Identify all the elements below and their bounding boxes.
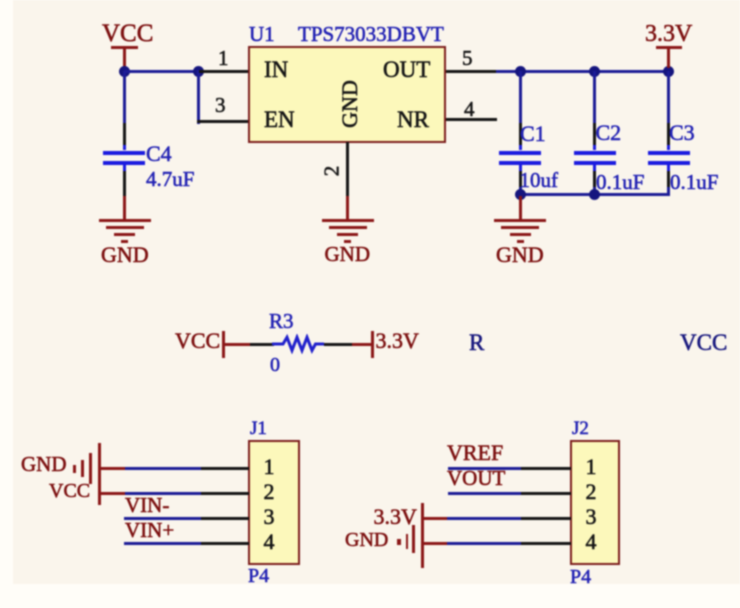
U1 pin 2 GND (bottom) [346, 142, 349, 196]
white page margins [0, 0, 13, 608]
connector J2 body [570, 440, 620, 565]
capacitor C2 [593, 71, 596, 123]
wire VCC to R3 [225, 343, 250, 346]
J2 pin 1 [521, 467, 571, 470]
regulator U1 body [248, 46, 446, 143]
ground (right, under C1) [519, 196, 522, 219]
net label VOUT [447, 468, 505, 489]
designator R (loose) [469, 331, 484, 354]
U1 pin 1 IN [199, 70, 249, 73]
wire R3 to 3.3V [324, 343, 352, 346]
net label VREF [447, 442, 503, 464]
wire VIN- to J1.3 [124, 517, 201, 520]
node at C1 top [515, 66, 526, 77]
U1 pin 5 OUT [446, 70, 496, 73]
net label VIN+ [125, 520, 174, 541]
node at C2 top [589, 66, 600, 77]
ground (middle, U1 pin2) [322, 219, 374, 222]
wire VCC net to J1.2 [100, 492, 125, 495]
power flag 3.3V (top right) [645, 22, 692, 46]
capacitor C1 [519, 71, 522, 123]
J2 pin 2 [521, 492, 571, 495]
J2 pin 4 [521, 542, 571, 545]
ground (left, C4) [99, 219, 151, 222]
node at C2 bottom [589, 189, 600, 200]
net name VCC (loose right) [680, 331, 727, 354]
capacitor C4 [123, 71, 126, 123]
ground (J1, horizontal) [98, 443, 102, 505]
J1 pin 1 [199, 467, 249, 470]
J2 pin 3 [521, 517, 571, 520]
wire node B down to EN [197, 70, 200, 124]
node at C1 bottom [515, 189, 526, 200]
wire GND to J2.4 [423, 542, 447, 545]
U1 pin 4 NR [446, 118, 497, 121]
power flag 3.3V (J2, horizontal bar) [421, 503, 425, 568]
wire bottom rail of capacitors [519, 193, 671, 196]
J1 pin 4 [199, 542, 249, 545]
wire output rail (top) [496, 70, 670, 73]
wire 3.3V to J2.3 [423, 517, 447, 520]
capacitor C3 [667, 71, 670, 123]
connector J1 body [248, 440, 300, 565]
U1 pin 3 EN [197, 120, 249, 123]
node at C3 / 3.3V [663, 66, 674, 77]
power flag VCC (J1, horizontal) [49, 481, 90, 501]
resistor R3 [269, 334, 325, 354]
power flag VCC (top left) [102, 21, 153, 46]
node A junction [119, 66, 130, 77]
J1 pin 2 [199, 492, 249, 495]
wire GND net to J1.1 [100, 467, 125, 470]
power flag VCC (left of R3) [175, 330, 220, 352]
net label VIN- [125, 495, 169, 516]
power flag 3.3V (right of R3) [371, 331, 374, 358]
wire VREF to J2.1 [448, 467, 521, 470]
ground (J2, horizontal) [412, 525, 415, 553]
wire VOUT to J2.2 [448, 492, 521, 495]
J1 pin 3 [199, 517, 249, 520]
wire node A to node B [124, 70, 200, 73]
node B junction [193, 66, 204, 77]
wire VIN+ to J1.4 [124, 542, 201, 545]
